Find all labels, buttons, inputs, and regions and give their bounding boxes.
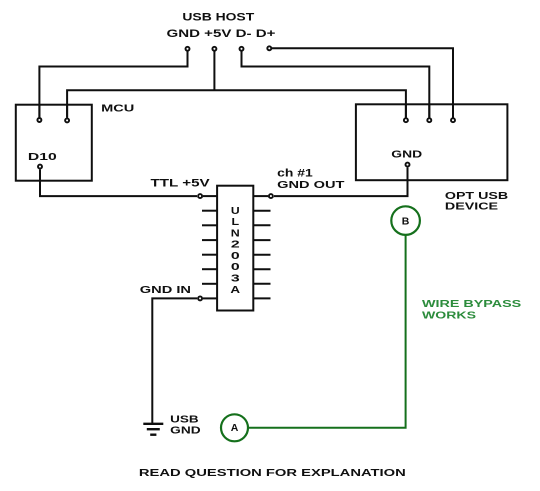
terminal D- of USB HOST <box>240 47 244 51</box>
label ULN2003A vertical <box>230 206 240 296</box>
terminal D+ of USB HOST <box>267 46 271 50</box>
OPT USB pin D+ <box>451 104 455 122</box>
wire GND IN to USB GND ground <box>152 298 197 423</box>
MCU pin D10 <box>38 165 42 181</box>
U1 left pin 2 <box>202 210 217 212</box>
node A circle <box>221 414 248 441</box>
svg-text:GND: GND <box>170 425 200 436</box>
ground USB GND symbol <box>143 424 163 435</box>
wire +5V horizontal rail to MCU pin2 and OPT USB VBUS <box>67 90 406 119</box>
svg-text:USB HOST: USB HOST <box>182 11 254 23</box>
OPT USB pin VBUS <box>404 104 408 122</box>
U1 right pin b <box>253 210 270 212</box>
node B circle <box>391 206 420 235</box>
svg-text:0: 0 <box>231 251 240 262</box>
svg-text:USB: USB <box>170 414 199 425</box>
wire GND host to MCU pin1 <box>39 52 187 120</box>
svg-text:D10: D10 <box>28 151 57 163</box>
svg-text:WORKS: WORKS <box>422 311 476 322</box>
svg-text:L: L <box>232 217 240 228</box>
svg-text:WIRE BYPASS: WIRE BYPASS <box>422 299 522 310</box>
svg-text:A: A <box>230 285 240 296</box>
MCU box <box>16 105 92 181</box>
U1 right pin d <box>253 239 270 241</box>
svg-text:GND +5V D- D+: GND +5V D- D+ <box>167 28 276 40</box>
wire ch #1 GND OUT to OPT USB GND <box>274 168 408 197</box>
U1 left pin 6 <box>202 268 217 270</box>
OPT USB pin GND <box>406 163 410 181</box>
svg-text:0: 0 <box>231 262 240 273</box>
U1 right pin h <box>253 297 270 299</box>
U1 right pin f <box>253 268 270 270</box>
svg-text:GND OUT: GND OUT <box>277 179 345 191</box>
svg-text:N: N <box>231 228 240 239</box>
MCU pin 2 <box>65 105 69 123</box>
svg-text:3: 3 <box>231 274 240 285</box>
svg-text:TTL +5V: TTL +5V <box>151 177 211 189</box>
svg-text:B: B <box>402 215 410 227</box>
OPT USB device box <box>356 104 508 180</box>
svg-text:ch #1: ch #1 <box>277 168 313 180</box>
U1 pin 8 GND IN <box>198 296 217 300</box>
U1 right pin e <box>253 254 270 256</box>
svg-text:GND: GND <box>391 150 422 161</box>
wire D10 to TTL +5V <box>40 170 197 197</box>
OPT USB pin D- <box>427 104 431 122</box>
U1 left pin 7 <box>202 283 217 285</box>
svg-text:MCU: MCU <box>101 103 134 115</box>
U1 left pin 5 <box>202 254 217 256</box>
terminal +5V of USB HOST <box>212 47 216 51</box>
svg-text:READ QUESTION FOR EXPLANATION: READ QUESTION FOR EXPLANATION <box>139 467 406 479</box>
IC U1 ULN2003A body <box>217 186 253 311</box>
wire D- host to OPT USB pin2 <box>242 52 430 120</box>
svg-text:DEVICE: DEVICE <box>445 201 498 213</box>
wire +5V host vertical drop <box>213 52 215 91</box>
U1 pin 16 ch#1 GND OUT <box>253 194 273 198</box>
svg-text:2: 2 <box>231 240 240 251</box>
U1 right pin c <box>253 224 270 226</box>
svg-text:U: U <box>231 206 240 217</box>
U1 right pin g <box>253 283 270 285</box>
wire green bypass B to A <box>249 236 406 428</box>
U1 left pin 3 <box>202 224 217 226</box>
svg-text:A: A <box>231 422 239 434</box>
wire D+ host to OPT USB pin3 <box>272 48 453 119</box>
svg-text:GND IN: GND IN <box>140 284 191 296</box>
MCU pin 1 <box>37 105 41 122</box>
U1 left pin 4 <box>202 239 217 241</box>
U1 pin 1 TTL +5V <box>198 194 217 198</box>
terminal GND of USB HOST <box>186 47 190 51</box>
